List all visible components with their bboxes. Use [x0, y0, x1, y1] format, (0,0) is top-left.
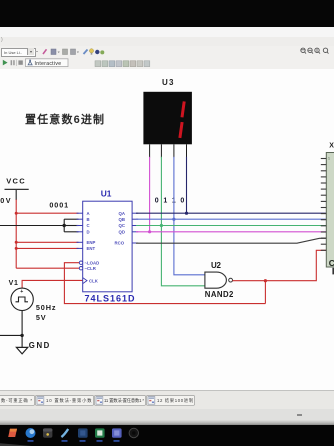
power symbol VCC — [5, 189, 29, 200]
svg-text:0 1 1 0: 0 1 1 0 — [155, 198, 185, 205]
svg-text:50Hz: 50Hz — [36, 303, 56, 312]
menu band — [0, 37, 334, 47]
svg-text:B: B — [87, 217, 90, 222]
connector XLA1 — [321, 153, 334, 268]
svg-text:C: C — [87, 223, 90, 228]
wire 0V rail left — [0, 334, 22, 336]
wire NAND output to connector — [233, 250, 327, 280]
title note 置任意数6进制 — [25, 112, 104, 126]
wire QD display (magenta vertical) — [149, 157, 151, 232]
bottom black taskbar — [0, 425, 334, 446]
node junction VCC/ENT — [15, 247, 18, 250]
bottom tab strip — [0, 390, 334, 410]
svg-text:11 置数法-置任意数1 *: 11 置数法-置任意数1 * — [104, 397, 144, 404]
label 0 1 1 0 — [155, 198, 185, 205]
wire V1 to CLK — [22, 280, 82, 287]
wire VCC to pin A — [16, 212, 78, 214]
svg-text:X: X — [329, 143, 334, 150]
svg-text:U1: U1 — [101, 189, 112, 199]
label V1 — [9, 280, 18, 287]
label 0001 — [49, 201, 68, 210]
label U2 — [211, 261, 221, 270]
wire QB display to NAND (blue vertical) — [174, 157, 205, 275]
svg-text:5V: 5V — [36, 313, 46, 322]
label GND — [29, 341, 50, 350]
svg-text:NAND2: NAND2 — [205, 290, 234, 299]
svg-text:QC: QC — [119, 223, 125, 228]
bottom gray strip — [0, 409, 334, 425]
wire QD bus (magenta horizontal) — [136, 231, 326, 233]
node junction QD — [148, 230, 151, 233]
svg-text:CLK: CLK — [89, 278, 99, 283]
svg-text:V1: V1 — [9, 280, 18, 287]
svg-text:VCC: VCC — [6, 177, 25, 186]
node junction 0V/C — [62, 224, 65, 227]
nand gate U2 — [205, 272, 233, 288]
cut-off mark below connector — [332, 268, 334, 275]
wire VCC to pin ENP — [16, 241, 78, 243]
svg-text:置任意数6进制: 置任意数6进制 — [25, 112, 104, 126]
node junction QB — [172, 218, 175, 221]
svg-text:C: C — [329, 258, 334, 268]
svg-text:QD: QD — [119, 230, 125, 235]
svg-text:74LS161D: 74LS161D — [85, 294, 136, 304]
ground symbol — [16, 347, 27, 354]
toolbar row 1 — [0, 46, 334, 59]
label NAND2 — [205, 290, 234, 299]
node junction QC — [160, 224, 163, 227]
label VCC — [6, 177, 25, 186]
svg-text:10 置数法-重第小数: 10 置数法-重第小数 — [46, 397, 92, 404]
counter U1 74LS161D — [77, 201, 139, 292]
wire QB bus (blue horizontal) — [136, 218, 326, 220]
svg-text:12 结果100进制: 12 结果100进制 — [157, 397, 193, 404]
wire RCO (gray horizontal) — [136, 238, 326, 243]
label 50Hz — [36, 303, 56, 312]
label U1 — [101, 189, 112, 199]
toolbar row1 icons — [0, 0, 334, 68]
svg-text:数-可重正确 *: 数-可重正确 * — [1, 397, 32, 404]
wire VCC to pin ENT — [16, 247, 78, 249]
wire QA display (navy vertical) — [186, 157, 188, 213]
svg-text:QB: QB — [119, 217, 125, 222]
svg-text:ENT: ENT — [87, 246, 96, 251]
node junction VCC/A — [15, 212, 18, 215]
white schematic canvas — [0, 69, 334, 391]
wire QC display to NAND (green vertical) — [161, 157, 205, 286]
node junction QA — [185, 212, 188, 215]
display U3 seven segment — [143, 92, 192, 158]
wire VCC vertical rail — [15, 200, 17, 269]
svg-text:RCO: RCO — [115, 241, 125, 246]
node junction V1/0V — [20, 334, 23, 337]
in-use-list combo — [1, 48, 36, 57]
wire QC bus (green horizontal) — [136, 225, 326, 227]
wire NAND output to ~LOAD — [64, 263, 265, 304]
source V1 clock — [11, 288, 33, 310]
svg-text:0001: 0001 — [49, 201, 68, 210]
svg-text:U2: U2 — [211, 261, 221, 270]
wire NAND output branch down — [264, 281, 266, 304]
label U3 — [162, 78, 174, 87]
svg-text:~CLR: ~CLR — [85, 266, 97, 271]
label C (cut off) — [329, 258, 334, 268]
wire 0V net to B C D — [0, 219, 79, 232]
toolbar row 2 — [0, 58, 334, 70]
wire VCC to pin ~CLR — [16, 267, 79, 269]
node junction NAND output branch — [264, 279, 267, 282]
label XLA1 (cut off) — [329, 143, 334, 150]
svg-text:D: D — [87, 230, 90, 235]
svg-text:U3: U3 — [162, 78, 174, 87]
label 74LS161D — [85, 294, 136, 304]
svg-text:GND: GND — [29, 341, 50, 350]
svg-text:A: A — [87, 211, 90, 216]
white title strip — [0, 27, 334, 38]
node junction VCC/ENP — [15, 241, 18, 244]
svg-text:QA: QA — [119, 211, 125, 216]
svg-text:~LOAD: ~LOAD — [85, 260, 100, 265]
label 5V — [36, 313, 46, 322]
wire V1 to ground — [21, 311, 23, 348]
svg-text:1: 1 — [328, 157, 330, 161]
wire QA bus (navy horizontal) — [136, 212, 326, 214]
svg-text:ENP: ENP — [87, 240, 96, 245]
svg-text:0V: 0V — [0, 196, 11, 205]
top black video bar — [0, 0, 334, 27]
label 0V — [0, 196, 11, 205]
svg-text:+: + — [20, 289, 23, 295]
